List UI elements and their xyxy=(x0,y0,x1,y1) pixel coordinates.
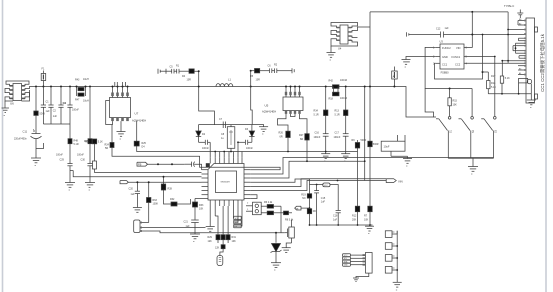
resistor R37 xyxy=(261,211,292,215)
svg-text:R14: R14 xyxy=(491,82,496,85)
svg-text:SCL: SCL xyxy=(344,258,348,260)
svg-text:U7: U7 xyxy=(135,112,139,116)
ground (U2 pin27) xyxy=(206,206,215,231)
svg-text:C7: C7 xyxy=(219,118,223,121)
resistor R48 xyxy=(68,139,79,164)
resistor R13 + capacitor C17 xyxy=(334,86,349,154)
capacitor R2 xyxy=(274,64,292,74)
svg-text:100nF: 100nF xyxy=(334,136,341,139)
svg-text:CC1 CC2需要接下拉电阻5.1k: CC1 CC2需要接下拉电阻5.1k xyxy=(539,33,546,92)
resistor R29 xyxy=(208,206,221,243)
svg-text:10uH: 10uH xyxy=(83,78,89,81)
svg-text:R4: R4 xyxy=(182,75,186,78)
svg-text:2: 2 xyxy=(247,203,249,205)
wire VBUS top rail xyxy=(370,11,508,13)
resistor R9 vertical chain xyxy=(352,139,367,225)
wire CC pulldown rail xyxy=(488,93,531,95)
resistor R16 5.1K pulldown xyxy=(491,61,510,94)
svg-text:R29: R29 xyxy=(208,236,213,239)
ground (U7) xyxy=(117,121,126,141)
ac branch right terminal xyxy=(292,68,294,73)
svg-text:1uF: 1uF xyxy=(333,219,338,222)
svg-text:5D-9: 5D-9 xyxy=(40,113,46,116)
resistor R30 xyxy=(221,206,225,245)
resistor R4 xyxy=(182,69,214,125)
resistor R14 5.1K xyxy=(487,72,497,94)
wire x364.7 xyxy=(364,86,366,181)
svg-text:=: = xyxy=(530,107,532,110)
optocoupler U5 xyxy=(262,86,303,114)
svg-text:R31: R31 xyxy=(232,236,237,239)
ground (C20) xyxy=(133,208,142,213)
svg-text:U4: U4 xyxy=(338,47,342,51)
wires U2 top pins xyxy=(214,141,242,157)
TYPE-C shield pin xyxy=(519,78,532,93)
header J2 with leds xyxy=(246,202,261,215)
svg-text:A: A xyxy=(393,75,395,79)
svg-text:FUNC1: FUNC1 xyxy=(452,55,461,59)
svg-text:10uH: 10uH xyxy=(83,100,89,103)
svg-text:C2: C2 xyxy=(53,110,57,113)
test pad TP3 xyxy=(385,255,397,262)
svg-text:=: = xyxy=(4,115,6,118)
wire switches bottom rail xyxy=(448,158,493,166)
svg-text:=: = xyxy=(69,189,71,192)
svg-text:1uF: 1uF xyxy=(53,115,58,118)
svg-text:20K: 20K xyxy=(352,219,357,222)
net flag VCC xyxy=(323,183,335,187)
main AC bus wire xyxy=(30,87,434,118)
svg-text:B8: B8 xyxy=(519,19,521,21)
wire TYPE-C D+/D- brackets xyxy=(513,38,519,58)
ground (U6) xyxy=(2,101,10,118)
wire U3 pin2 to ground xyxy=(406,57,436,60)
wire rails to U2 left xyxy=(95,172,202,174)
svg-text:VIN: VIN xyxy=(398,179,403,183)
svg-text:B5: B5 xyxy=(519,68,521,70)
wire vertical x370 xyxy=(369,12,371,141)
ground (C29) xyxy=(65,183,75,193)
svg-text:1u: 1u xyxy=(221,137,224,140)
inductor pair R43/R47 xyxy=(75,78,89,103)
svg-text:AQW414EH: AQW414EH xyxy=(132,119,146,123)
svg-text:C12: C12 xyxy=(436,28,441,31)
svg-text:500R: 500R xyxy=(373,143,379,146)
svg-text:FUNC2: FUNC2 xyxy=(442,46,451,50)
svg-text:R18: R18 xyxy=(329,98,334,101)
ground (mid right) xyxy=(321,152,330,164)
ac branch right xyxy=(250,70,255,125)
svg-text:R42: R42 xyxy=(329,80,334,83)
capacitor C7 pair on rail xyxy=(219,118,226,128)
svg-text:SW3516H: SW3516H xyxy=(221,182,231,184)
wire stubs above bus at U7 xyxy=(115,82,126,87)
zener D5 xyxy=(271,233,282,263)
wire staircase right of U2 xyxy=(250,158,493,191)
svg-text:10K: 10K xyxy=(232,240,237,243)
svg-text:R15: R15 xyxy=(453,100,458,103)
svg-text:=: = xyxy=(193,241,195,244)
svg-text:10K: 10K xyxy=(199,208,204,211)
MCU U2 QFP32 xyxy=(202,157,251,206)
svg-text:2: 2 xyxy=(433,56,435,59)
svg-text:=: = xyxy=(89,189,91,192)
wire rail y184.5 xyxy=(310,184,323,186)
svg-text:12K: 12K xyxy=(208,240,213,243)
connector J3 labels xyxy=(343,254,351,267)
svg-text:1: 1 xyxy=(247,209,249,211)
wire U3 pin3 loop xyxy=(435,34,489,79)
capacitor C22 xyxy=(333,185,341,226)
ac branch left terminal xyxy=(158,69,172,74)
svg-text:GND: GND xyxy=(442,55,448,59)
svg-text:R8 5.1k: R8 5.1k xyxy=(285,219,294,222)
svg-text:CC2: CC2 xyxy=(455,63,461,67)
svg-text:100nF: 100nF xyxy=(72,109,79,112)
svg-text:R26: R26 xyxy=(279,132,284,135)
ground (TYPE-C) xyxy=(527,94,536,110)
capacitor C21 xyxy=(184,220,199,234)
resistor R26 xyxy=(278,114,291,153)
svg-text:D6: D6 xyxy=(313,210,317,213)
svg-text:C6: C6 xyxy=(268,65,272,68)
node bus junctions left xyxy=(35,86,91,88)
svg-text:C4: C4 xyxy=(63,102,67,105)
relay U4 xyxy=(331,23,370,51)
transistor Q1 xyxy=(285,219,295,248)
svg-text:U3: U3 xyxy=(440,40,444,44)
diode R42 on bus xyxy=(329,79,348,88)
resistor R19 xyxy=(301,185,311,210)
svg-text:=: = xyxy=(405,66,407,69)
capacitor C9 xyxy=(199,140,211,157)
switch S1 xyxy=(425,89,452,159)
svg-text:6R: 6R xyxy=(300,138,303,141)
svg-text:6R: 6R xyxy=(280,136,283,139)
svg-text:GND: GND xyxy=(344,265,349,267)
svg-text:C20: C20 xyxy=(129,188,134,191)
svg-text:R20: R20 xyxy=(85,141,90,144)
svg-text:1uF: 1uF xyxy=(46,110,51,113)
svg-text:=: = xyxy=(330,59,332,62)
svg-text:R1: R1 xyxy=(176,65,180,68)
capacitor C30 chain xyxy=(77,87,93,183)
capacitor C4 xyxy=(63,87,79,139)
capacitor C20 xyxy=(129,181,141,207)
diode D2 xyxy=(196,125,206,143)
switch S2 xyxy=(459,89,476,159)
resistor R27 xyxy=(291,114,310,162)
capacitor C13 C14 box 10uF xyxy=(381,135,407,156)
svg-text:5.1K: 5.1K xyxy=(98,141,103,144)
diode R18 on bus xyxy=(329,87,348,101)
optocoupler U6 xyxy=(5,81,30,106)
svg-text:R32: R32 xyxy=(170,198,175,201)
resistor R28 xyxy=(161,176,172,204)
svg-text:A4: A4 xyxy=(519,22,521,25)
svg-text:C8: C8 xyxy=(221,133,225,136)
resistor R31 xyxy=(226,206,236,243)
net tag NTC xyxy=(217,256,223,266)
capacitor C5 xyxy=(170,66,177,74)
resistor R36 xyxy=(261,201,281,208)
svg-text:C17: C17 xyxy=(335,132,340,135)
svg-text:R5: R5 xyxy=(250,75,254,78)
net flag VIN xyxy=(337,179,403,184)
svg-text:=: = xyxy=(35,165,37,168)
net flag VBUS xyxy=(295,206,310,211)
capacitor C11 branch (NTC + electrolytic) xyxy=(14,87,45,149)
svg-text:1uF: 1uF xyxy=(321,201,326,204)
svg-text:R47: R47 xyxy=(75,99,80,102)
svg-text:C11: C11 xyxy=(23,130,28,134)
svg-text:VCC: VCC xyxy=(324,185,329,187)
test pad TP1 xyxy=(385,231,397,238)
ground (switches) xyxy=(468,167,478,177)
svg-text:CC1: CC1 xyxy=(442,63,448,67)
svg-text:R13: R13 xyxy=(335,110,340,113)
svg-text:NC: NC xyxy=(302,197,306,200)
svg-text:5.1R: 5.1R xyxy=(74,143,79,146)
capacitor C6 xyxy=(268,65,275,74)
svg-text:10R: 10R xyxy=(187,79,192,82)
crystal connector X1 xyxy=(134,220,222,233)
bottom pins xyxy=(209,200,211,206)
test pad TP4 xyxy=(385,267,397,274)
wire zener node xyxy=(222,206,285,234)
svg-text:=: = xyxy=(471,173,473,176)
resistor R35 xyxy=(215,245,225,256)
svg-text:100nF: 100nF xyxy=(56,154,63,157)
svg-text:U5: U5 xyxy=(265,104,269,108)
svg-text:=: = xyxy=(274,269,276,272)
svg-text:FS8B0: FS8B0 xyxy=(441,71,449,75)
svg-text:1uF: 1uF xyxy=(186,225,191,228)
wire U3 pin1 loop xyxy=(425,47,472,89)
svg-text:VIN: VIN xyxy=(456,46,460,50)
svg-text:12K: 12K xyxy=(215,247,220,250)
resistor R10 vertical chain xyxy=(364,141,379,225)
ground (C17) xyxy=(341,154,350,164)
wire VIN line from connector xyxy=(507,29,509,31)
svg-text:100nR: 100nR xyxy=(340,79,347,82)
diode D3 xyxy=(245,125,255,143)
svg-text:=: = xyxy=(406,165,408,168)
svg-text:5.1R: 5.1R xyxy=(335,114,340,117)
right pins xyxy=(244,169,250,171)
net flag FB xyxy=(137,162,185,166)
capacitor C8 xyxy=(221,125,235,152)
svg-text:100nF: 100nF xyxy=(246,147,253,150)
border frame right xyxy=(545,0,547,292)
svg-text:SCL: SCL xyxy=(235,218,239,220)
border frame left xyxy=(2,0,4,292)
resistor R33 chain xyxy=(193,195,258,220)
svg-text:=: = xyxy=(120,138,122,141)
resistor R15 vertical xyxy=(448,89,458,117)
svg-text:5.1R: 5.1R xyxy=(314,114,319,117)
svg-text:1uF: 1uF xyxy=(131,193,136,196)
connector J3 xyxy=(351,253,373,279)
svg-text:S3: S3 xyxy=(495,129,498,133)
svg-text:=: = xyxy=(324,160,326,163)
wire rail above U2 xyxy=(199,124,253,126)
svg-text:100nF: 100nF xyxy=(202,147,209,150)
svg-text:R2: R2 xyxy=(274,64,278,67)
capacitor C15 xyxy=(314,185,326,226)
ground (J3) xyxy=(353,278,359,282)
svg-text:U6: U6 xyxy=(10,102,14,106)
TYPE-C pins xyxy=(502,19,526,76)
svg-text:=: = xyxy=(396,289,398,292)
ground (C21) xyxy=(190,234,200,244)
left pins xyxy=(202,169,209,171)
resistor R63 xyxy=(147,181,159,222)
svg-text:10uF: 10uF xyxy=(384,145,390,149)
svg-text:5.1K: 5.1K xyxy=(491,86,496,89)
svg-text:=: = xyxy=(368,233,370,236)
resistor R24 xyxy=(105,125,281,170)
capacitor R1 xyxy=(176,65,189,74)
ground (C11) xyxy=(31,149,41,168)
svg-text:C30: C30 xyxy=(81,159,86,162)
svg-text:1: 1 xyxy=(433,47,435,50)
TYPE-C connector J1 xyxy=(504,4,538,103)
wire rail caps xyxy=(43,123,70,125)
svg-text:R6 2.2k: R6 2.2k xyxy=(264,201,273,204)
svg-text:5: 5 xyxy=(466,56,468,59)
svg-text:A1: A1 xyxy=(519,72,521,75)
wire TYPE-C verticals xyxy=(501,12,518,75)
ground (U4) xyxy=(327,46,336,62)
optocoupler U7 xyxy=(106,86,147,125)
wire rail y225 bottom xyxy=(310,224,373,226)
resistor R38 xyxy=(307,209,316,226)
svg-text:=: = xyxy=(344,160,346,163)
svg-text:FB: FB xyxy=(138,163,142,167)
ground (rail y225) xyxy=(365,225,374,236)
svg-text:C5: C5 xyxy=(170,66,174,69)
svg-text:R43: R43 xyxy=(75,79,80,82)
svg-text:5R: 5R xyxy=(105,147,108,150)
svg-text:100nR: 100nR xyxy=(340,97,347,100)
ground (zener) xyxy=(271,263,281,273)
svg-text:C16: C16 xyxy=(315,132,320,135)
svg-text:6: 6 xyxy=(466,47,468,50)
net flag VDD xyxy=(120,181,202,184)
capacitor C19 xyxy=(185,162,202,170)
resistor R34 + capacitor C16 xyxy=(314,86,329,153)
ground (top of U2) xyxy=(252,125,268,137)
svg-text:AQW414EH: AQW414EH xyxy=(262,110,276,114)
svg-text:100K: 100K xyxy=(153,203,159,206)
capacitor C1 xyxy=(41,87,50,125)
svg-text:220uF/450v: 220uF/450v xyxy=(14,138,27,141)
svg-text:100nF: 100nF xyxy=(314,136,321,139)
svg-text:=: = xyxy=(262,133,264,136)
capacitor C10 xyxy=(238,140,253,157)
svg-text:C21: C21 xyxy=(184,221,189,224)
svg-text:R34: R34 xyxy=(314,110,319,113)
inductor L1 xyxy=(216,78,233,87)
ground (C13) xyxy=(403,156,412,168)
svg-text:R28: R28 xyxy=(168,188,173,191)
test pad TP2 xyxy=(385,243,397,250)
fuse F1 xyxy=(41,68,46,87)
svg-text:S1: S1 xyxy=(450,129,453,133)
svg-text:D3: D3 xyxy=(245,128,249,131)
svg-text:D4: D4 xyxy=(142,146,146,149)
svg-text:F1: F1 xyxy=(42,68,45,71)
svg-text:TYPE-C: TYPE-C xyxy=(504,4,514,8)
svg-text:C18: C18 xyxy=(333,215,338,218)
svg-text:10K: 10K xyxy=(364,219,369,222)
capacitor C12 above U3 xyxy=(407,27,527,38)
svg-text:R9: R9 xyxy=(352,139,356,142)
capacitor C3 xyxy=(58,87,66,125)
svg-text:R17: R17 xyxy=(491,75,496,78)
resistor R32 xyxy=(170,198,191,206)
svg-text:C29: C29 xyxy=(60,159,65,162)
ground (test pads) xyxy=(393,282,402,292)
capacitor C29 xyxy=(56,154,73,183)
capacitor C2 xyxy=(48,87,57,125)
svg-text:R7: R7 xyxy=(364,215,368,218)
diode D4 xyxy=(134,121,357,151)
svg-text:1uF: 1uF xyxy=(445,27,450,30)
svg-text:D2: D2 xyxy=(202,133,206,136)
IC U3 xyxy=(433,40,508,75)
top pins xyxy=(209,157,211,163)
switch S3 xyxy=(481,56,498,159)
svg-text:L1: L1 xyxy=(228,78,231,82)
fuse F2 xyxy=(392,67,398,88)
svg-text:R27: R27 xyxy=(299,134,304,137)
ground (Q1) xyxy=(282,248,291,253)
svg-text:500R: 500R xyxy=(361,139,367,142)
wire test pads to ground xyxy=(396,231,398,282)
svg-text:R12: R12 xyxy=(352,215,357,218)
svg-text:100nF: 100nF xyxy=(77,154,84,157)
svg-text:C1: C1 xyxy=(46,101,50,104)
svg-text:5.1K: 5.1K xyxy=(505,77,510,80)
ground (U3 gnd) xyxy=(402,60,411,70)
resistor R20 chain xyxy=(85,139,103,173)
wire VIN drop xyxy=(464,12,473,48)
net flags right of U2 bottom xyxy=(234,206,243,228)
resistor R5 xyxy=(250,69,270,82)
ground (C30) xyxy=(85,183,95,193)
svg-text:10K: 10K xyxy=(453,104,458,107)
svg-text:10R: 10R xyxy=(256,79,261,82)
svg-text:S2: S2 xyxy=(472,129,475,133)
